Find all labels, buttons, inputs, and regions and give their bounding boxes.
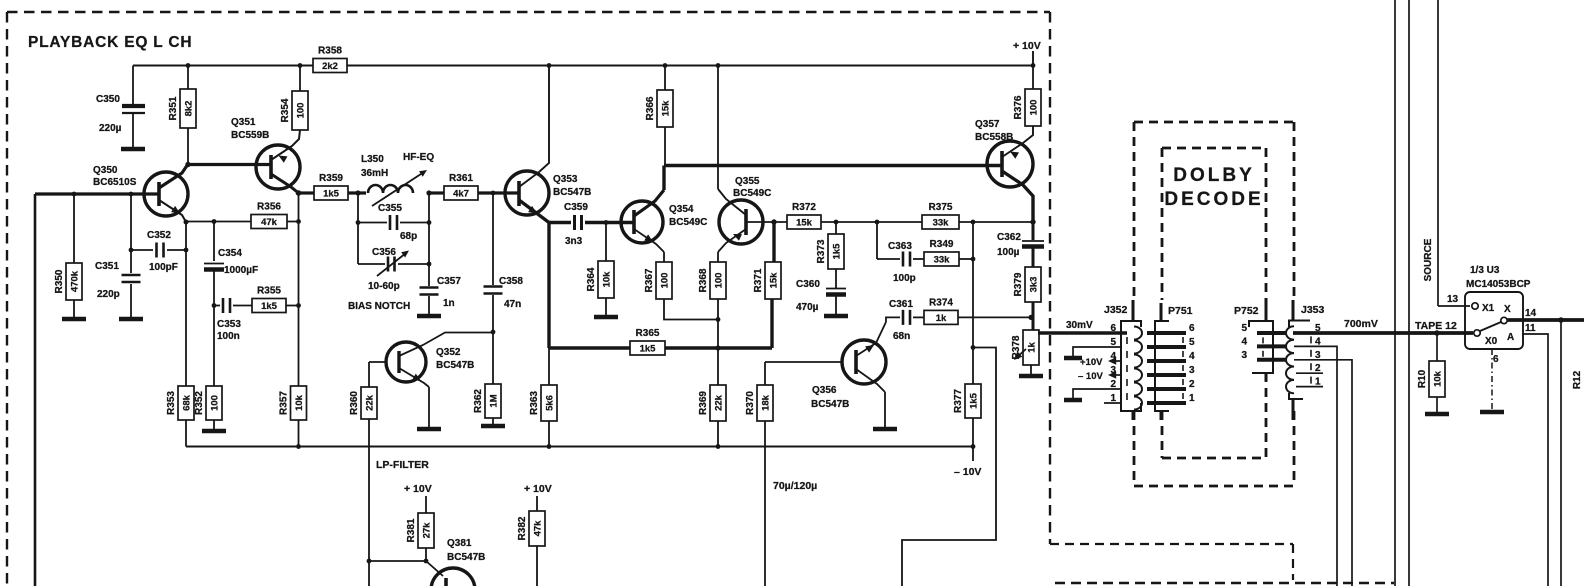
svg-text:27k: 27k (421, 522, 432, 539)
resistor R371 15k (753, 262, 781, 299)
wire R372 to R375 (821, 221, 922, 223)
resistor R376 100 (1013, 89, 1041, 126)
wire Q353 emitter down to R365 line (547, 223, 550, 349)
wire R360 down to LP filter (368, 419, 370, 561)
wire base node down to R371 (772, 222, 775, 262)
ground C360 (824, 314, 848, 319)
svg-text:DOLBY: DOLBY (1173, 165, 1255, 186)
svg-text:R361: R361 (449, 173, 473, 184)
wiper arrow R378 (1016, 349, 1026, 358)
wire to R359 (299, 191, 315, 194)
svg-text:C355: C355 (378, 203, 402, 214)
wire to R360 (368, 362, 370, 387)
svg-text:100: 100 (713, 273, 724, 289)
stub J353 bottom (1292, 399, 1295, 420)
svg-text:22k: 22k (713, 394, 724, 411)
junction rail/Q353 collector (547, 63, 552, 68)
wire LP input to Q381 (369, 560, 426, 562)
inductor L350 36mH (368, 170, 427, 206)
ground R362 (481, 424, 505, 429)
svg-text:BC547B: BC547B (553, 187, 591, 198)
svg-text:6: 6 (1493, 354, 1499, 365)
capacitor C361 68n (903, 310, 910, 325)
wire R365 to R371 node (665, 346, 772, 349)
transistor Q351 BC559B (256, 145, 300, 189)
svg-text:33k: 33k (933, 218, 950, 229)
wire collector node to R351 (187, 128, 189, 164)
wire to C363 (877, 258, 900, 260)
junction base/C351 (129, 192, 134, 197)
svg-text:18k: 18k (760, 394, 771, 411)
svg-text:6: 6 (1110, 323, 1116, 334)
svg-text:1k: 1k (1026, 342, 1037, 353)
resistor R358 2k2 (313, 46, 347, 73)
svg-text:Q350: Q350 (93, 165, 118, 176)
wire +10V stub (1032, 51, 1034, 66)
resistor R349 33k (924, 239, 959, 266)
wire down to R362 (492, 332, 494, 384)
junction rail/R369 (716, 444, 721, 449)
svg-text:R375: R375 (929, 202, 953, 213)
wire C361 to R374 (913, 316, 924, 318)
wire C360 to ground (835, 295, 837, 314)
svg-text:C351: C351 (95, 261, 119, 272)
wire rail to R366 (664, 66, 666, 91)
resistor R370 18k (745, 385, 773, 421)
svg-text:68n: 68n (893, 331, 910, 342)
wire base to R350 (73, 194, 75, 263)
junction column/R356 (296, 219, 301, 224)
svg-text:13: 13 (1447, 294, 1459, 305)
dolby inner box top (1162, 147, 1266, 150)
svg-text:R379: R379 (1013, 272, 1024, 296)
svg-text:R12: R12 (1572, 370, 1583, 389)
contact X common (1501, 317, 1507, 323)
svg-text:4k7: 4k7 (453, 189, 469, 200)
wire R355 to node column (286, 305, 299, 307)
wire input to Q350 base (35, 192, 158, 195)
transistor Q353 BC547B (505, 171, 549, 215)
wire R362 to ground (492, 418, 494, 424)
dolby outer box left lower (1133, 411, 1136, 486)
svg-text:R364: R364 (586, 267, 597, 291)
dolby outer box top (1134, 121, 1294, 124)
wire Q381 base diagonal (426, 561, 443, 576)
section border bottom-right horizontal (1050, 543, 1293, 545)
svg-text:R350: R350 (54, 269, 65, 293)
svg-text:BC6510S: BC6510S (93, 177, 137, 188)
connector J353 (1286, 321, 1311, 400)
svg-text:C356: C356 (372, 247, 396, 258)
svg-text:47k: 47k (261, 217, 278, 228)
svg-text:1k: 1k (936, 313, 947, 324)
junction R379 column/R374 line (1028, 315, 1033, 320)
transistor Q355 BC549C (719, 200, 763, 244)
svg-text:36mH: 36mH (361, 168, 388, 179)
svg-text:C354: C354 (218, 248, 242, 259)
wire J352 pin5 to ground (1073, 347, 1121, 356)
junction Q355 base/R371 (771, 219, 776, 224)
svg-text:SOURCE: SOURCE (1423, 238, 1434, 281)
wire pin13 X1 (1438, 305, 1470, 307)
junction rail end (971, 444, 976, 449)
svg-text:1000µF: 1000µF (224, 265, 258, 276)
resistor R379 3k3 (1013, 267, 1041, 302)
wire R378 to ground (1030, 365, 1032, 374)
wire up to R371 (770, 299, 773, 348)
svg-text:2: 2 (1189, 379, 1195, 390)
wire R370 down off frame (764, 421, 766, 586)
wire to C355 (358, 222, 387, 224)
svg-text:BC547B: BC547B (811, 399, 849, 410)
svg-text:BC558B: BC558B (975, 132, 1013, 143)
dolby outer box bottom (1134, 485, 1294, 488)
junction rail/R363 (547, 444, 552, 449)
ground pin6 (1480, 410, 1504, 415)
svg-text:X1: X1 (1482, 303, 1495, 314)
svg-text:5: 5 (1241, 323, 1247, 334)
svg-text:J353: J353 (1301, 304, 1325, 316)
junction R375/node column (971, 220, 976, 225)
svg-text:1n: 1n (443, 298, 455, 309)
wire R366 to collector node (664, 127, 666, 166)
svg-text:R377: R377 (953, 389, 964, 413)
svg-text:+ 10V: + 10V (524, 483, 552, 495)
wire Q354 collector to Q357 base (664, 164, 1001, 167)
junction Q350 collector node (185, 162, 190, 167)
junction Q351 collector node (296, 190, 302, 196)
junction R372 row/R373 (834, 220, 839, 225)
wire J352 pin1 stub (1104, 402, 1121, 404)
stub P752 bottom (1265, 373, 1268, 381)
wire J353 pin2 stub (1296, 372, 1323, 374)
svg-text:10-60p: 10-60p (368, 281, 400, 292)
junction LP filter input (367, 559, 372, 564)
svg-text:700mV: 700mV (1344, 318, 1378, 330)
junction column/R355 (296, 303, 301, 308)
svg-text:PLAYBACK EQ L CH: PLAYBACK EQ L CH (28, 34, 192, 51)
wire C362 to R379 (1032, 248, 1035, 267)
svg-text:R372: R372 (792, 202, 816, 213)
wire right node down to C357 (428, 193, 430, 286)
svg-text:Q352: Q352 (436, 347, 461, 358)
wire collector node down (662, 166, 665, 191)
section border drop at x=1293 (1292, 544, 1294, 580)
junction C354/R355 row (212, 303, 217, 308)
wire R353 to bottom rail (185, 420, 187, 447)
stub P751 bottom (1160, 411, 1163, 420)
svg-text:1k5: 1k5 (968, 392, 979, 409)
junction L350 left node (355, 190, 360, 195)
capacitor C351 220p (122, 275, 141, 282)
wire rail to C350 (132, 66, 134, 105)
svg-text:DECODE: DECODE (1164, 189, 1263, 210)
resistor R355 1k5 (252, 286, 286, 313)
resistor R366 15k (645, 90, 673, 127)
wire Q352 emitter to ground (428, 387, 430, 427)
wire R367 bottom row (664, 299, 717, 320)
junction R372 row/C363 branch (875, 220, 880, 225)
wire R352 to ground (213, 420, 215, 429)
junction C351/C352 (129, 248, 134, 253)
svg-text:X: X (1504, 304, 1511, 315)
svg-text:HF-EQ: HF-EQ (403, 152, 434, 163)
wire C351 to ground (130, 284, 132, 317)
junction R356 row/C354 (212, 219, 217, 224)
svg-text:10k: 10k (601, 271, 612, 288)
svg-text:70µ/120µ: 70µ/120µ (773, 480, 817, 492)
ground R350 (62, 317, 86, 322)
svg-text:1k5: 1k5 (831, 243, 842, 260)
capacitor C352 100pF (157, 243, 164, 258)
wire node column (298, 193, 300, 386)
wire R375 to C362 node (959, 221, 1033, 223)
junction Q357 collector/C362 (1030, 219, 1035, 224)
svg-text:P752: P752 (1234, 305, 1259, 317)
svg-text:3: 3 (1241, 350, 1247, 361)
resistor R374 1k (924, 297, 958, 324)
resistor R354 100 (280, 91, 308, 130)
svg-text:6: 6 (1189, 323, 1195, 334)
junction base/R350 (72, 192, 77, 197)
svg-text:R369: R369 (698, 391, 709, 415)
svg-text:J352: J352 (1104, 304, 1128, 316)
svg-text:C357: C357 (437, 276, 461, 287)
wire R379 to R378 (1032, 302, 1035, 330)
connector J352 (1121, 321, 1142, 411)
resistor R361 4k7 (444, 173, 478, 200)
svg-text:4: 4 (1241, 336, 1247, 347)
resistor R367 100 (644, 262, 672, 299)
svg-text:Q355: Q355 (735, 176, 760, 187)
connector P752 (1249, 321, 1286, 373)
wire R364 to ground (605, 298, 607, 315)
wire C356 to right node (398, 263, 429, 265)
arrow +10V pin4 (1108, 357, 1116, 364)
ground J352 pin5 (1064, 356, 1082, 361)
wire TAPE to R10 (1436, 333, 1438, 361)
svg-text:100µ: 100µ (997, 247, 1020, 258)
wire Q353 emitter to C359 (549, 221, 571, 224)
junction rail/R366 (663, 63, 668, 68)
ground R364 (594, 315, 618, 320)
dolby inner box left upper (1161, 148, 1164, 300)
wire to C352 (131, 249, 153, 251)
next section border bottom (1055, 582, 1394, 585)
wire L350 to R361 (429, 191, 444, 194)
wire left node down (357, 193, 359, 264)
svg-text:+ 10V: + 10V (404, 483, 432, 495)
junction L350 right node (426, 190, 431, 195)
svg-text:R365: R365 (636, 328, 660, 339)
svg-text:470µ: 470µ (796, 302, 819, 313)
wire R350 to ground (73, 300, 75, 317)
contact X1 (1472, 303, 1478, 309)
ground Q356 emitter (873, 427, 897, 432)
resistor R352 100 (194, 386, 222, 420)
dolby outer box right lower (1293, 411, 1296, 486)
wire to C354 (213, 222, 215, 262)
junction rail/R376 (1031, 63, 1036, 68)
capacitor C355 68p (390, 215, 397, 230)
svg-text:R373: R373 (816, 239, 827, 263)
ground C357 (417, 314, 441, 319)
wire J353 pin1 stub (1296, 386, 1323, 388)
dolby inner box left lower (1161, 411, 1164, 458)
svg-text:R363: R363 (529, 391, 540, 415)
contact X0 (1474, 330, 1480, 336)
svg-text:A: A (1507, 332, 1514, 343)
wire J352 pin3 -10V (1111, 374, 1121, 376)
resistor R362 1M (473, 384, 501, 418)
transistor Q356 BC547B (842, 340, 886, 384)
connector P751 (1147, 321, 1186, 411)
capacitor C359 3n3 (575, 215, 582, 230)
junction C356 right (427, 262, 432, 267)
capacitor C350 220u (122, 106, 145, 113)
svg-text:11: 11 (1525, 323, 1536, 334)
junction TAPE/R10 (1434, 330, 1440, 336)
svg-text:100n: 100n (217, 331, 240, 342)
svg-text:22k: 22k (364, 394, 375, 411)
wire -10V bottom rail (186, 446, 973, 448)
svg-text:C353: C353 (217, 319, 241, 330)
wire Q356 emitter to ground (884, 392, 886, 427)
stub J353 top (1292, 300, 1295, 321)
svg-text:R357: R357 (279, 391, 290, 415)
svg-text:1k5: 1k5 (261, 301, 278, 312)
svg-text:R354: R354 (280, 98, 291, 122)
junction X output (1558, 317, 1564, 323)
transistor Q381 BC547B (431, 568, 475, 586)
svg-text:BC549C: BC549C (733, 188, 771, 199)
wire -10V stub (972, 447, 974, 462)
svg-text:R376: R376 (1013, 95, 1024, 119)
wire emitter node down to R353 (185, 222, 187, 386)
svg-text:100: 100 (209, 395, 220, 411)
resistor R351 8k2 (168, 89, 196, 128)
svg-text:1/3 U3: 1/3 U3 (1470, 265, 1500, 276)
svg-text:3k3: 3k3 (1028, 277, 1039, 293)
svg-text:R366: R366 (645, 96, 656, 120)
capacitor C357 1n (420, 288, 439, 295)
resistor R365 1k5 (630, 328, 665, 355)
svg-text:Q351: Q351 (231, 117, 256, 128)
junction rail/R351 (186, 63, 191, 68)
svg-text:1k5: 1k5 (640, 344, 657, 355)
resistor R350 470k (54, 263, 82, 300)
svg-text:15k: 15k (768, 272, 779, 289)
svg-text:8k2: 8k2 (183, 101, 194, 117)
wire pin6 to ground dash-dot (1491, 349, 1493, 410)
svg-text:X0: X0 (1485, 336, 1498, 347)
svg-text:Q354: Q354 (669, 204, 694, 215)
wire C357 to ground (428, 296, 430, 314)
wire A output down (1523, 334, 1548, 586)
ground R10 (1425, 412, 1449, 417)
svg-text:BIAS NOTCH: BIAS NOTCH (348, 301, 410, 312)
resistor R356 47k (251, 202, 287, 229)
wire rail to R354 (299, 66, 301, 92)
wire R370 node to Q356 base (765, 361, 842, 363)
svg-text:100p: 100p (893, 273, 916, 284)
playback section border top (7, 11, 1050, 13)
wire C350 to ground (132, 114, 134, 147)
svg-text:30mV: 30mV (1066, 320, 1093, 331)
dolby outer box left upper (1133, 122, 1136, 300)
svg-text:– 10V: – 10V (1078, 371, 1103, 382)
svg-text:R368: R368 (698, 268, 709, 292)
transistor Q352 BC547B (386, 342, 426, 382)
wire +10V to R381 (425, 496, 427, 513)
dolby inner box right lower (1265, 373, 1268, 458)
wire Q355 collector to rail (717, 66, 719, 190)
wire branch to lower section (902, 348, 996, 586)
transistor Q354 BC549C (621, 201, 663, 243)
wire down to R369 (717, 320, 719, 386)
svg-text:R352: R352 (194, 391, 205, 415)
svg-text:68p: 68p (400, 231, 417, 242)
wire R381 to base node (425, 548, 427, 561)
wire C352 to emitter column (167, 249, 186, 251)
svg-text:C361: C361 (889, 299, 913, 310)
svg-text:Q353: Q353 (553, 174, 578, 185)
junction base line/C358 (491, 191, 496, 196)
wire J352 pin4 +10V (1111, 360, 1121, 362)
wire R368 bottom (717, 299, 719, 320)
wire to R373 (835, 222, 837, 234)
junction Q350 emitter node (184, 220, 189, 225)
wire R377 to bottom rail (972, 418, 974, 447)
wire X output down (1560, 320, 1562, 586)
resistor R381 27k (406, 513, 434, 548)
svg-text:R358: R358 (318, 46, 342, 57)
svg-text:100: 100 (295, 103, 306, 119)
svg-text:R381: R381 (406, 518, 417, 542)
resistor R375 33k (922, 202, 959, 229)
junction R365 line/R369 column (715, 345, 720, 350)
svg-text:R382: R382 (517, 516, 528, 540)
wire C355 to right node (400, 222, 429, 224)
resistor R373 1k5 (816, 234, 844, 269)
wire J352 pin2 to ground (1073, 389, 1121, 398)
svg-text:R367: R367 (644, 268, 655, 292)
resistor R364 10k (586, 261, 614, 298)
wire R373 to C360 (835, 269, 837, 288)
svg-text:R359: R359 (319, 173, 343, 184)
ground C350 (121, 147, 145, 152)
svg-text:100: 100 (1028, 100, 1039, 116)
wire down off frame (368, 561, 370, 586)
capacitor C360 470u (826, 289, 846, 295)
wire to Q351 base (188, 163, 270, 166)
wire branch down (876, 222, 878, 259)
wire +10V rail right of R358 (347, 65, 1033, 67)
capacitor C363 100p (903, 252, 910, 267)
playback section border left (6, 12, 8, 586)
wire R349 to node (959, 258, 973, 260)
capacitor C362 100u (1022, 241, 1044, 247)
junction C358/Q352 collector (491, 330, 496, 335)
svg-text:15k: 15k (660, 100, 671, 117)
arrow -10V pin3 (1108, 371, 1116, 378)
ground C351 (119, 317, 143, 322)
playback section border right (1049, 12, 1051, 544)
wire input vertical (34, 194, 37, 586)
capacitor C353 100n (223, 298, 230, 313)
svg-text:C362: C362 (997, 232, 1021, 243)
wire R360 node to Q352 base (369, 361, 386, 363)
